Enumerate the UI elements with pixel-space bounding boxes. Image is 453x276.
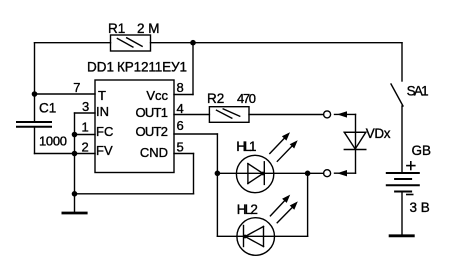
svg-text:7: 7 (73, 80, 80, 95)
wire C1 bottom lead (35, 128, 75, 154)
wire HL1 row (217, 172, 323, 174)
wire left vertical from rail to C1 (34, 43, 36, 122)
LED HL1 (236, 155, 273, 192)
junction pin 1 (72, 132, 78, 138)
pin number 1 (82, 120, 89, 135)
switch SA1 (391, 43, 403, 173)
wire HL right rail (307, 173, 309, 236)
label HL2 (237, 202, 258, 217)
svg-text:1000: 1000 (39, 134, 67, 149)
junction Vcc node (190, 40, 196, 46)
op-amp U1: IC DD1 box (95, 80, 174, 173)
battery GB (387, 173, 419, 192)
svg-text:GB: GB (412, 143, 432, 158)
svg-text:4: 4 (177, 101, 184, 116)
label GB (412, 143, 432, 158)
label SA1 (407, 84, 429, 99)
wire left bus vertical (74, 113, 76, 194)
label КР1211ЕУ1 (117, 60, 187, 75)
svg-text:6: 6 (177, 118, 184, 133)
wire pin 6 lead down to LEDs (174, 134, 217, 236)
wire VDx branch vertical (355, 114, 357, 173)
svg-text:FV: FV (96, 143, 113, 158)
pin label CND (140, 145, 168, 160)
svg-text:2 М: 2 М (137, 21, 160, 36)
wire pin 1 lead (75, 134, 96, 136)
svg-text:8: 8 (177, 80, 184, 95)
junction pin7 node (32, 91, 38, 97)
junction HL left node (215, 171, 221, 177)
pin label FV (96, 143, 113, 158)
pin label OUT2 (136, 124, 169, 139)
wire pin 7 lead (35, 93, 96, 95)
svg-text:R2: R2 (207, 91, 224, 106)
pin number 8 (177, 80, 184, 95)
label R2 (207, 91, 224, 106)
wire pin 3 lead (75, 112, 96, 114)
battery negative terminal bar (389, 234, 415, 237)
svg-text:IN: IN (96, 104, 109, 119)
LED HL2 (237, 218, 275, 256)
value 1000 (39, 134, 67, 149)
wire battery bottom lead (401, 192, 403, 235)
label minus (406, 194, 414, 196)
node connector pin arrow bottom (335, 170, 356, 176)
pin number 6 (177, 118, 184, 133)
pin label Vcc (146, 88, 168, 103)
label R1 (108, 21, 125, 36)
resistor R1 (111, 35, 151, 51)
wire top rail left segment (35, 42, 111, 44)
wire pin 8 lead and up to rail (174, 43, 193, 95)
svg-text:3: 3 (82, 99, 89, 114)
svg-text:VDx: VDx (366, 126, 391, 141)
pin number 4 (177, 101, 184, 116)
svg-text:Vcc: Vcc (146, 88, 168, 103)
svg-text:3 В: 3 В (410, 200, 430, 215)
svg-text:HL2: HL2 (237, 202, 258, 217)
junction HL right node (305, 171, 311, 177)
node connector socket top (324, 111, 331, 118)
HL1 emission arrows (270, 132, 298, 161)
svg-text:CND: CND (140, 145, 168, 160)
pin label FC (96, 124, 113, 139)
wire top rail right segment (151, 42, 403, 44)
svg-text:HL1: HL1 (236, 139, 256, 154)
pin label IN (96, 104, 109, 119)
resistor R2 (209, 107, 249, 123)
capacitor C1 (17, 122, 51, 127)
wire pin 2 lead (75, 153, 96, 155)
node connector pin arrow top (335, 111, 356, 117)
label DD1 (87, 60, 114, 75)
label plus (406, 161, 416, 170)
svg-text:КР1211ЕУ1: КР1211ЕУ1 (117, 60, 187, 75)
wire pin 4 lead to R2 (174, 114, 209, 116)
pin number 3 (82, 99, 89, 114)
svg-text:2: 2 (82, 140, 89, 155)
svg-text:R1: R1 (108, 21, 125, 36)
node connector socket bottom (324, 170, 331, 177)
pin label T (98, 88, 106, 103)
svg-text:470: 470 (237, 91, 256, 106)
pin label OUT1 (136, 105, 169, 120)
wire HL2 row (217, 235, 307, 237)
svg-text:C1: C1 (39, 101, 56, 116)
junction ground node (72, 191, 78, 197)
HL2 emission arrows (270, 195, 297, 223)
svg-text:OUT1: OUT1 (136, 105, 169, 120)
svg-text:1: 1 (82, 120, 89, 135)
svg-text:T: T (98, 88, 106, 103)
label VDx (366, 126, 391, 141)
svg-text:5: 5 (177, 140, 184, 155)
value 470 (237, 91, 256, 106)
pin number 2 (82, 140, 89, 155)
diode VDx (344, 132, 366, 149)
ground (62, 194, 88, 213)
junction pin 2 (72, 151, 78, 157)
label C1 (39, 101, 56, 116)
svg-text:FC: FC (96, 124, 113, 139)
svg-text:OUT2: OUT2 (136, 124, 169, 139)
pin number 5 (177, 140, 184, 155)
label HL1 (236, 139, 256, 154)
wire pin 5 lead to ground (75, 154, 194, 194)
value 2 M (137, 21, 160, 36)
value 3 В (410, 200, 430, 215)
svg-text:DD1: DD1 (87, 60, 114, 75)
pin number 7 (73, 80, 80, 95)
wire R2 to connector (249, 114, 323, 116)
svg-text:SA1: SA1 (407, 84, 429, 99)
